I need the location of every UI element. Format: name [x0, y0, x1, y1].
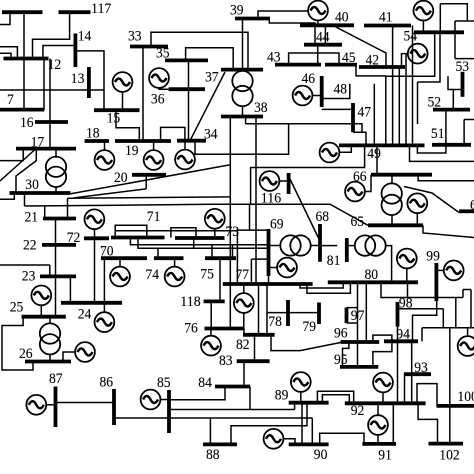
wire: [417, 384, 437, 406]
wire: [209, 418, 211, 444]
wire: [353, 132, 366, 145]
svg-text:80: 80: [365, 266, 379, 283]
svg-text:12: 12: [48, 56, 62, 73]
wire: [231, 403, 307, 445]
wire: [55, 187, 57, 193]
wire: [186, 48, 234, 70]
svg-text:53: 53: [456, 58, 470, 75]
bus 79: [317, 303, 321, 325]
bus 33: [130, 45, 168, 49]
wire: [455, 58, 474, 60]
wire: [115, 225, 147, 237]
bus 11: [2, 10, 43, 14]
bus 95: [340, 365, 378, 369]
wire: [301, 403, 303, 445]
wire: [289, 53, 339, 65]
wire: [145, 175, 147, 189]
wire: [24, 193, 26, 206]
svg-text:74: 74: [146, 266, 160, 283]
generator G bus 85: [141, 390, 161, 410]
wire: [55, 219, 57, 317]
generator G bus 36: [149, 68, 169, 88]
svg-text:92: 92: [351, 402, 365, 419]
svg-text:42: 42: [366, 52, 380, 69]
transformer T 37-38: [232, 71, 252, 106]
svg-text:77: 77: [236, 266, 250, 283]
svg-text:72: 72: [67, 229, 81, 246]
bus 53: [461, 72, 465, 97]
wire: [320, 433, 364, 444]
svg-text:87: 87: [49, 370, 63, 387]
wire: [267, 312, 319, 314]
bus 12: [4, 57, 49, 61]
svg-text:45: 45: [342, 49, 356, 66]
wire: [159, 87, 169, 89]
wire: [251, 258, 268, 260]
bus 77: [223, 282, 313, 286]
generator G bus 19: [144, 150, 164, 170]
wire: [418, 403, 437, 443]
generator G bus 87: [26, 395, 46, 415]
bus 82: [243, 333, 275, 337]
wire: [413, 301, 437, 341]
wire: [411, 341, 413, 403]
wire: [43, 59, 45, 111]
wire: [130, 238, 268, 245]
bus 51: [432, 143, 471, 147]
wire: [405, 54, 407, 145]
svg-text:85: 85: [157, 374, 171, 391]
bus 83: [237, 359, 270, 363]
svg-text:51: 51: [431, 125, 445, 142]
svg-text:39: 39: [230, 2, 244, 19]
svg-text:14: 14: [78, 28, 92, 45]
bus 116: [287, 173, 291, 194]
wire: [343, 342, 349, 367]
wire: [116, 110, 139, 141]
wire: [294, 403, 296, 410]
svg-text:38: 38: [254, 99, 268, 116]
bus 40: [300, 23, 354, 27]
svg-text:76: 76: [184, 320, 198, 337]
wire: [184, 141, 186, 151]
bus 7: [0, 108, 44, 112]
bus 76: [205, 327, 245, 331]
wire: [300, 392, 302, 403]
generator G bus 91: [368, 415, 388, 435]
bus 38: [221, 115, 263, 119]
svg-text:89: 89: [275, 386, 289, 403]
generator G bus 80: [397, 249, 417, 269]
wire: [391, 215, 393, 225]
bus 75: [205, 256, 236, 260]
wire: [423, 225, 474, 237]
wire: [283, 439, 295, 445]
wire: [322, 108, 353, 110]
wire: [245, 117, 247, 124]
wire: [2, 317, 33, 370]
wire: [193, 238, 195, 248]
wire: [311, 418, 313, 444]
wire: [23, 12, 25, 110]
wire: [49, 317, 51, 324]
wire: [169, 387, 225, 400]
wire: [255, 117, 257, 285]
wire: [63, 352, 76, 362]
svg-text:17: 17: [31, 134, 45, 151]
wire: [452, 90, 454, 110]
generator G bus 73: [205, 209, 225, 229]
wire: [16, 149, 36, 193]
bus 43: [275, 63, 321, 67]
wire: [404, 187, 459, 213]
transformer T 25-26: [40, 323, 60, 354]
wire: [211, 245, 213, 258]
wire: [455, 298, 457, 328]
svg-text:47: 47: [358, 103, 372, 120]
generator G bus 54: [414, 1, 434, 21]
generator G bus 99: [444, 261, 464, 281]
generator G bus 90: [264, 429, 284, 449]
svg-text:69: 69: [270, 215, 284, 232]
bus 19: [115, 139, 171, 143]
svg-text:97: 97: [351, 307, 365, 324]
bus 91: [362, 442, 396, 446]
svg-text:33: 33: [128, 28, 142, 45]
wire: [115, 230, 237, 232]
wire: [322, 245, 338, 247]
svg-text:19: 19: [125, 142, 139, 159]
wire: [269, 19, 315, 45]
wire: [347, 307, 358, 309]
bus 89: [289, 401, 329, 405]
bus 81: [345, 238, 349, 262]
wire: [219, 258, 221, 301]
svg-text:54: 54: [404, 28, 418, 45]
wire: [237, 229, 268, 231]
svg-text:75: 75: [200, 265, 214, 282]
generator G bus 69: [277, 258, 297, 278]
wire: [300, 282, 343, 288]
wire: [74, 189, 146, 198]
wire: [0, 53, 11, 58]
svg-text:36: 36: [151, 90, 165, 107]
wire: [404, 374, 406, 403]
wire: [268, 276, 270, 284]
svg-text:13: 13: [71, 70, 85, 87]
wire: [0, 89, 104, 91]
svg-text:100: 100: [457, 388, 474, 405]
bus 71: [111, 236, 165, 240]
svg-text:98: 98: [399, 294, 413, 311]
wire: [114, 417, 312, 419]
bus 14: [74, 34, 78, 68]
wire: [232, 245, 234, 258]
wire: [246, 124, 362, 132]
generator G bus 94: [458, 336, 474, 356]
wire: [464, 119, 474, 121]
svg-text:35: 35: [156, 45, 170, 62]
svg-text:34: 34: [204, 126, 218, 143]
svg-text:18: 18: [86, 125, 100, 142]
wire: [290, 178, 319, 238]
wire: [138, 238, 268, 249]
wire: [249, 204, 251, 230]
wire: [385, 246, 391, 283]
bus 26: [25, 360, 71, 364]
wire: [324, 25, 326, 44]
svg-text:44: 44: [316, 29, 330, 46]
svg-text:48: 48: [334, 81, 348, 98]
svg-text:70: 70: [100, 242, 114, 259]
wire: [439, 4, 441, 33]
bus 117: [59, 10, 91, 14]
bus 24: [61, 301, 122, 305]
bus 15: [94, 108, 140, 112]
generator G bus 66: [345, 182, 365, 202]
svg-text:82: 82: [236, 336, 250, 353]
wire: [210, 329, 212, 337]
svg-text:46: 46: [302, 70, 316, 87]
wire: [347, 322, 358, 324]
wire: [406, 268, 408, 283]
wire: [381, 282, 463, 297]
bus 18: [85, 139, 109, 143]
svg-text:93: 93: [414, 359, 428, 376]
bus 80: [328, 280, 418, 284]
svg-text:91: 91: [378, 446, 392, 463]
generator G bus 24: [95, 312, 115, 332]
wire: [307, 282, 350, 293]
wire: [142, 47, 144, 142]
bus 64: [459, 209, 474, 213]
wire: [229, 117, 231, 329]
wire: [68, 197, 231, 198]
wire: [40, 305, 42, 317]
wire: [373, 84, 375, 146]
bus 20: [132, 173, 166, 177]
wire: [151, 32, 248, 69]
svg-text:88: 88: [206, 446, 220, 463]
svg-text:81: 81: [327, 252, 341, 269]
wire: [449, 328, 451, 444]
transformer T 17-30: [46, 157, 66, 187]
bus 102: [429, 442, 464, 446]
wire: [373, 341, 392, 367]
wire: [258, 284, 260, 335]
wire: [214, 228, 216, 238]
wire: [270, 267, 278, 269]
wire: [49, 59, 51, 149]
bus 41: [364, 24, 411, 28]
wire: [467, 328, 469, 337]
wire: [0, 150, 35, 182]
wire: [448, 76, 463, 89]
wire: [119, 258, 121, 267]
wire: [0, 47, 17, 59]
svg-text:94: 94: [396, 325, 410, 342]
wire: [412, 26, 414, 146]
bus 23: [40, 274, 76, 278]
wire: [421, 328, 423, 342]
wire: [385, 76, 387, 145]
svg-text:37: 37: [205, 69, 219, 86]
wire: [46, 404, 56, 406]
bus 16: [35, 120, 68, 124]
bus 85: [167, 390, 171, 433]
svg-text:30: 30: [25, 176, 39, 193]
wire: [392, 403, 394, 444]
bus 52: [433, 108, 470, 112]
wire: [440, 4, 467, 21]
bus 46: [320, 76, 324, 107]
svg-text:15: 15: [107, 110, 121, 127]
bus 69: [267, 229, 271, 276]
wire: [157, 248, 159, 258]
wire: [258, 11, 309, 19]
wire: [377, 434, 379, 444]
wire: [339, 145, 352, 152]
generator G bus 76: [234, 293, 254, 313]
bus 49: [339, 143, 425, 147]
generator G bus 116: [260, 171, 280, 191]
svg-text:102: 102: [439, 446, 459, 463]
wire: [190, 72, 225, 141]
wire: [386, 34, 435, 76]
wire: [122, 91, 124, 110]
wire: [161, 127, 185, 141]
wire: [402, 54, 409, 67]
wire: [160, 399, 169, 401]
wire: [417, 145, 446, 153]
svg-text:90: 90: [314, 446, 328, 463]
bus 84: [215, 385, 250, 389]
svg-text:41: 41: [379, 9, 393, 26]
bus 94: [384, 339, 418, 343]
wire: [49, 354, 51, 362]
svg-text:117: 117: [91, 0, 112, 17]
bus 66: [371, 173, 432, 177]
wire: [0, 149, 23, 161]
svg-text:24: 24: [78, 305, 92, 322]
wire: [398, 67, 400, 145]
wire: [417, 82, 419, 124]
svg-text:96: 96: [334, 325, 348, 342]
wire: [243, 329, 245, 335]
svg-text:26: 26: [19, 345, 33, 362]
bus 39: [235, 17, 270, 21]
wire: [249, 387, 251, 410]
wire: [454, 21, 456, 59]
wire: [356, 65, 386, 76]
bus 90: [289, 442, 329, 446]
wire: [397, 327, 399, 404]
bus 22: [42, 243, 76, 247]
bus 68: [318, 224, 322, 262]
wire: [392, 26, 394, 146]
svg-text:43: 43: [267, 49, 281, 66]
bus 45: [325, 63, 357, 67]
wire: [336, 25, 386, 67]
wire: [462, 290, 464, 298]
svg-text:86: 86: [100, 373, 114, 390]
wire: [94, 229, 96, 302]
wire: [0, 193, 14, 199]
wire: [251, 145, 365, 204]
bus 74: [154, 256, 184, 260]
wire: [43, 46, 76, 59]
bus 47: [351, 103, 355, 132]
wire: [373, 335, 392, 342]
wire: [357, 282, 359, 367]
wire: [410, 145, 474, 162]
wire: [322, 84, 350, 99]
svg-text:83: 83: [219, 352, 233, 369]
svg-text:84: 84: [198, 374, 212, 391]
generator G bus 70: [110, 267, 130, 287]
wire: [250, 259, 252, 284]
wire: [317, 45, 319, 65]
wire: [312, 95, 322, 97]
generator G bus 25: [31, 286, 51, 306]
bus 88: [203, 442, 237, 446]
wire: [418, 34, 441, 82]
svg-text:23: 23: [22, 268, 36, 285]
wire: [174, 258, 176, 267]
bus 73: [175, 236, 225, 240]
bus 72: [84, 236, 109, 240]
wire: [317, 391, 353, 403]
svg-text:95: 95: [334, 351, 348, 368]
bus 96: [341, 340, 380, 344]
generator G bus 15: [113, 72, 133, 92]
bus 25: [22, 315, 66, 319]
generator G bus 76b: [201, 336, 221, 356]
wire: [463, 120, 465, 145]
wire: [438, 269, 444, 271]
bus 98: [396, 302, 400, 327]
wire: [171, 228, 196, 238]
wire: [153, 141, 155, 151]
wire: [418, 175, 474, 181]
wire: [0, 12, 10, 24]
generator G bus 42: [408, 44, 428, 64]
generator G bus 40: [308, 1, 328, 21]
wire: [243, 361, 245, 386]
bus 17: [16, 147, 76, 151]
bus 42: [359, 65, 405, 69]
generator G bus 89: [291, 372, 311, 392]
bus 92: [345, 401, 426, 405]
wire: [382, 392, 384, 403]
wire: [365, 282, 367, 342]
svg-text:25: 25: [10, 299, 24, 316]
svg-text:66: 66: [353, 168, 367, 185]
wire: [322, 395, 349, 404]
wire: [210, 301, 212, 328]
wire: [33, 12, 70, 58]
wire: [55, 149, 57, 158]
wire: [188, 60, 190, 141]
bus 13: [87, 67, 91, 98]
bus 54: [414, 30, 464, 34]
bus 36: [169, 87, 205, 91]
bus 118: [204, 299, 225, 303]
bus 86: [112, 389, 116, 425]
wire: [67, 198, 69, 218]
bus 21: [43, 217, 76, 221]
wire: [75, 51, 104, 110]
